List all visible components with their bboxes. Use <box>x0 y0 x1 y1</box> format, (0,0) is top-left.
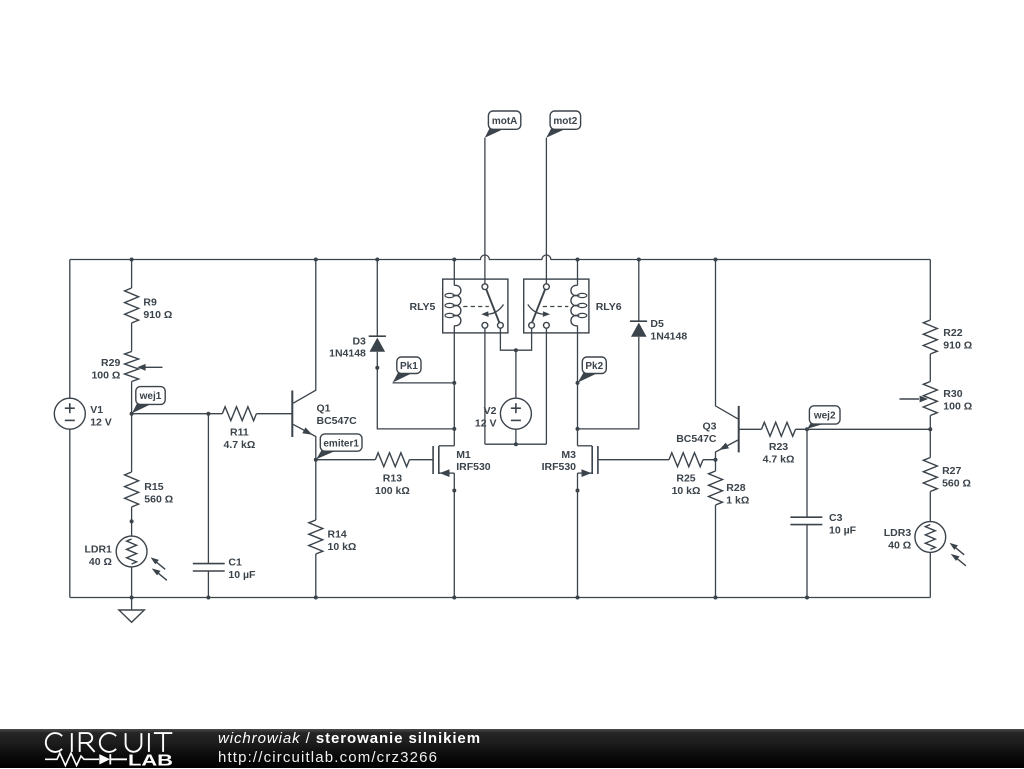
logo diode symbol <box>99 754 110 764</box>
svg-text:V1: V1 <box>90 404 103 416</box>
mosfet M3 IRF530 <box>597 446 599 474</box>
ground symbol <box>131 598 133 611</box>
resistor R9 <box>125 288 139 323</box>
svg-text:R9: R9 <box>143 296 157 308</box>
junction emiter1 node <box>314 458 318 462</box>
wire Pk1 to relay coil column <box>393 382 455 384</box>
svg-text:V2: V2 <box>484 405 497 417</box>
wire V2 plus stem <box>515 350 517 398</box>
svg-text:R13: R13 <box>383 473 402 485</box>
relay RLY6 box <box>524 279 589 333</box>
svg-text:R22: R22 <box>943 327 962 339</box>
node flag mot2 <box>546 128 566 138</box>
junction M3 at ground rail <box>576 596 580 600</box>
svg-text:R23: R23 <box>769 441 788 453</box>
svg-text:M3: M3 <box>561 449 576 461</box>
wire M1 source to ground rail <box>453 473 455 597</box>
junction C3 at ground rail <box>805 596 809 600</box>
wire C3 column <box>806 429 808 597</box>
wire Pk2 tip at RLY6 coil column <box>577 382 579 384</box>
junction Q1 collector at rail <box>314 258 318 262</box>
svg-text:BC547C: BC547C <box>317 415 358 427</box>
relay RLY5 dashed link <box>463 306 489 308</box>
junction V2 minus bus <box>514 442 518 446</box>
svg-text:R14: R14 <box>328 528 347 540</box>
wire C1 column <box>207 414 209 598</box>
node flag Pk1 <box>393 372 413 383</box>
node flag emiter1 <box>316 450 336 460</box>
wire R14 column <box>315 460 317 598</box>
footer link <box>218 749 438 766</box>
junction C1 bottom <box>206 596 210 600</box>
svg-text:wej2: wej2 <box>813 411 836 422</box>
junction D5 wire at M3 column <box>576 427 580 431</box>
wire V2 minus bus <box>485 429 547 444</box>
svg-text:10 µF: 10 µF <box>228 569 256 581</box>
potentiometer R29 <box>125 352 139 382</box>
svg-text:10 kΩ: 10 kΩ <box>672 485 701 497</box>
junction V2 plus bus <box>514 348 518 352</box>
wire Q1 collector to rail <box>293 260 316 404</box>
diode D3 1N4148 <box>369 335 386 337</box>
wire motA flag to RLY5 common <box>484 138 486 284</box>
svg-text:Pk2: Pk2 <box>585 361 603 372</box>
svg-text:40 Ω: 40 Ω <box>888 540 911 552</box>
svg-text:R27: R27 <box>942 465 961 477</box>
wire D5 cathode to rail <box>638 260 640 322</box>
svg-text:BC547C: BC547C <box>676 433 717 445</box>
voltage source V2 <box>500 398 531 429</box>
wire Q3 collector to rail <box>716 260 739 419</box>
wire R9/R29 column <box>131 260 133 414</box>
relay RLY6 common terminal <box>544 284 550 290</box>
resistor R13 <box>375 453 409 467</box>
svg-text:100 Ω: 100 Ω <box>91 370 120 382</box>
svg-text:RLY5: RLY5 <box>410 301 436 313</box>
svg-text:D3: D3 <box>352 335 366 347</box>
mosfet M1 IRF530 <box>432 446 434 474</box>
resistor R25 <box>669 453 703 467</box>
svg-text:C1: C1 <box>228 556 242 568</box>
svg-text:100 Ω: 100 Ω <box>943 401 972 413</box>
node flag motA <box>485 128 505 138</box>
junction C1 top <box>206 412 210 416</box>
svg-text:R28: R28 <box>726 482 745 494</box>
junction Q3 emitter node <box>714 458 718 462</box>
junction D5 at rail <box>637 258 641 262</box>
transistor Q1 BC547C <box>291 391 293 438</box>
wire D3 cathode to rail <box>376 260 378 337</box>
wire Q3 base row (R23 to wej2) <box>739 428 931 430</box>
relay RLY6 switch arm <box>532 290 545 323</box>
resistor R11 <box>222 407 256 421</box>
wire D5 anode down and left to M3 column <box>578 337 639 429</box>
wire emiter1 row to R13 and M1 gate <box>316 459 433 461</box>
wire Q3 emitter to node <box>716 440 739 460</box>
junction wej2 node <box>805 427 809 431</box>
svg-text:C3: C3 <box>829 512 843 524</box>
wire right rail <box>929 260 931 598</box>
junction R9 at rail <box>130 258 134 262</box>
wire RLY5 coil bottom to M1 drain <box>453 326 455 446</box>
diode D5 1N4148 <box>630 320 647 322</box>
svg-text:R11: R11 <box>230 426 249 438</box>
wire RLY6 coil bottom to M3 drain <box>577 326 579 446</box>
node flag wej2 <box>807 423 825 429</box>
svg-text:R29: R29 <box>101 357 120 369</box>
svg-text:IRF530: IRF530 <box>542 461 577 473</box>
resistor R27 <box>923 458 937 492</box>
svg-text:4.7 kΩ: 4.7 kΩ <box>763 453 795 465</box>
svg-text:IRF530: IRF530 <box>456 461 491 473</box>
junction Pk2 at coil column <box>576 381 580 385</box>
junction D3 anode segment join <box>375 366 379 370</box>
relay RLY5 contact terminals <box>482 322 488 328</box>
svg-text:LDR1: LDR1 <box>84 543 112 555</box>
svg-text:Pk1: Pk1 <box>400 361 418 372</box>
wire top supply rail with crossover hops <box>70 255 931 260</box>
relay RLY5 coil <box>454 285 461 325</box>
svg-text:560 Ω: 560 Ω <box>942 478 971 490</box>
svg-text:910 Ω: 910 Ω <box>143 309 172 321</box>
wire bottom ground rail <box>70 597 931 599</box>
footer title <box>218 730 481 747</box>
svg-text:560 Ω: 560 Ω <box>144 494 173 506</box>
svg-text:Q1: Q1 <box>317 403 331 415</box>
svg-text:Q3: Q3 <box>702 421 716 433</box>
svg-text:LDR3: LDR3 <box>884 527 912 539</box>
junction R15-LDR1 <box>130 519 134 523</box>
wire left rail (V1 branch) <box>69 260 71 598</box>
svg-text:1N4148: 1N4148 <box>650 331 687 343</box>
relay RLY6 dashed link <box>543 306 569 308</box>
relay RLY6 contact terminals <box>529 322 535 328</box>
wire M3 gate to R25 <box>598 459 716 461</box>
node flag wej1 <box>132 403 152 413</box>
wire R28 column <box>715 460 717 598</box>
node flag Pk2 <box>578 372 599 383</box>
svg-text:100 kΩ: 100 kΩ <box>375 485 410 497</box>
capacitor C1 <box>193 563 225 565</box>
junction RLY6 coil at rail <box>576 258 580 262</box>
svg-text:mot2: mot2 <box>553 116 577 127</box>
potentiometer R30 <box>923 382 937 416</box>
resistor R14 <box>309 520 323 554</box>
wire RLY6 NC contact to V2 minus bus <box>545 328 547 444</box>
relay RLY5 switch arm <box>486 290 499 323</box>
relay RLY6 coil <box>571 285 578 325</box>
wire RLY6 coil top to rail <box>577 260 579 286</box>
svg-text:emiter1: emiter1 <box>323 438 359 449</box>
wire RLY5 NC contact to V2 minus bus <box>484 328 486 444</box>
svg-text:40 Ω: 40 Ω <box>89 556 112 568</box>
wire mot2 flag to RLY6 common <box>545 138 547 284</box>
logo resistor symbol <box>45 753 99 765</box>
wire RLY5 NO contact to bus <box>500 328 531 350</box>
svg-text:wej1: wej1 <box>139 391 162 402</box>
junction Q3 collector at rail <box>714 258 718 262</box>
photoresistor LDR1 <box>116 536 147 567</box>
svg-text:12 V: 12 V <box>90 417 112 429</box>
svg-text:4.7 kΩ: 4.7 kΩ <box>224 439 256 451</box>
resistor R28 <box>709 471 723 505</box>
junction wej1 node <box>130 412 134 416</box>
svg-text:910 Ω: 910 Ω <box>943 340 972 352</box>
junction M1 source segment join <box>452 489 456 493</box>
junction M1 at ground rail <box>452 596 456 600</box>
svg-text:R30: R30 <box>943 388 962 400</box>
svg-text:LAB: LAB <box>128 752 173 769</box>
svg-text:D5: D5 <box>650 318 664 330</box>
wire Q1 emitter to emiter1 node <box>293 424 316 459</box>
relay RLY5 actuation arrow <box>485 305 504 315</box>
svg-text:1 kΩ: 1 kΩ <box>726 495 749 507</box>
junction wej2 row at right rail <box>928 427 932 431</box>
capacitor C3 <box>790 516 822 518</box>
junction Pk1 at coil column <box>452 381 456 385</box>
photoresistor LDR3 <box>915 522 946 553</box>
resistor R23 <box>762 422 796 436</box>
svg-text:motA: motA <box>492 116 518 127</box>
resistor R15 <box>125 472 139 507</box>
wire RLY5 coil top to rail <box>453 260 455 286</box>
junction D3 at rail <box>375 258 379 262</box>
wire R15/LDR1 column <box>131 414 133 598</box>
CIRCUIT LAB logo wordmark <box>46 733 172 752</box>
transistor Q3 BC547C <box>738 406 740 453</box>
junction LDR1-ground <box>130 596 134 600</box>
junction D3 wire at M1 column <box>452 427 456 431</box>
svg-text:R15: R15 <box>144 481 163 493</box>
svg-text:12 V: 12 V <box>475 418 497 430</box>
svg-text:1N4148: 1N4148 <box>329 347 366 359</box>
relay RLY5 common terminal <box>482 284 488 290</box>
junction M3 source segment join <box>576 489 580 493</box>
wire D3 anode down and right to relay column <box>377 352 454 429</box>
resistor R22 <box>923 320 937 354</box>
svg-text:10 kΩ: 10 kΩ <box>328 541 357 553</box>
wire wej1 row to R11 and Q1 base <box>132 413 293 415</box>
footer bar <box>0 729 1024 769</box>
svg-text:10 µF: 10 µF <box>829 524 857 536</box>
relay RLY6 actuation arrow <box>528 305 547 315</box>
svg-text:R25: R25 <box>676 473 695 485</box>
relay RLY5 box <box>443 279 508 333</box>
voltage source V1 <box>54 398 85 429</box>
junction RLY5 coil at rail <box>452 258 456 262</box>
svg-text:RLY6: RLY6 <box>596 301 622 313</box>
svg-text:M1: M1 <box>456 449 471 461</box>
wire M3 source to ground rail <box>577 473 579 597</box>
junction R28 at ground rail <box>714 596 718 600</box>
junction R14 at ground rail <box>314 596 318 600</box>
